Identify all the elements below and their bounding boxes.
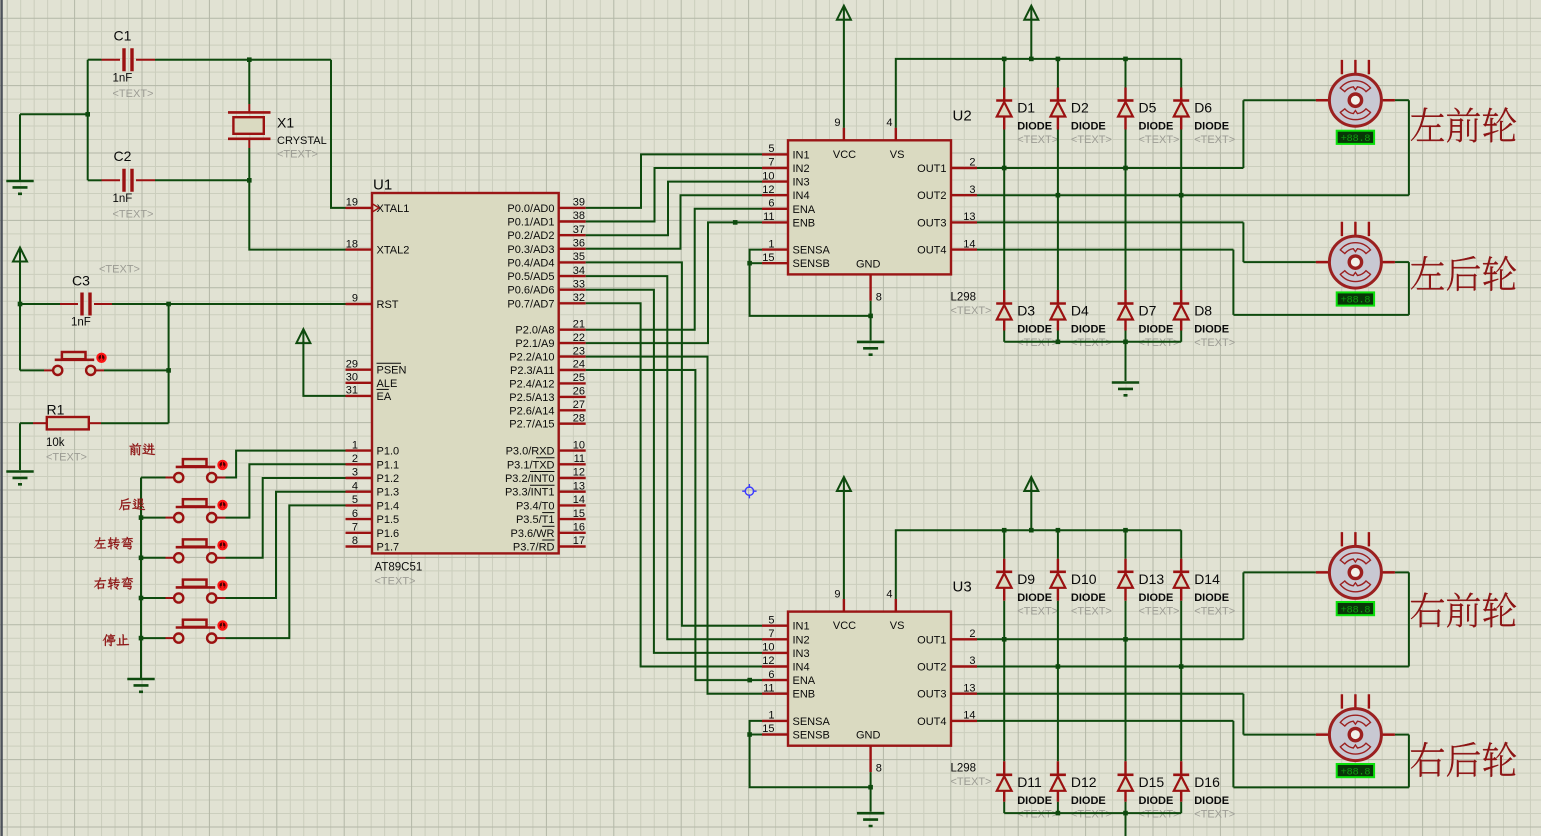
label C2 <box>114 148 132 164</box>
diode D7 <box>1118 304 1134 320</box>
svg-text:4: 4 <box>886 588 892 600</box>
svg-text:8: 8 <box>876 291 882 303</box>
wire button 1 to P1.0 <box>226 451 346 478</box>
wire U3 SENS loop <box>750 721 871 787</box>
svg-text:P3.2/INT0: P3.2/INT0 <box>505 473 555 485</box>
ground below R1 <box>6 472 33 485</box>
svg-text:7: 7 <box>768 628 774 640</box>
text D7 <TEXT> <box>1139 337 1180 349</box>
wire button 2 to P1.1 <box>226 464 346 517</box>
mcu U1 right pins <box>505 197 586 554</box>
svg-text:DIODE: DIODE <box>1017 121 1052 133</box>
wire P2.1 to U2 ENB <box>586 222 762 343</box>
label D6 DIODE <box>1194 121 1229 133</box>
wire button 2 left <box>141 517 166 519</box>
svg-text:AT89C51: AT89C51 <box>375 562 423 574</box>
svg-text:CRYSTAL: CRYSTAL <box>277 135 327 147</box>
text D1 <TEXT> <box>1017 134 1058 146</box>
svg-text:P2.4/A12: P2.4/A12 <box>509 378 554 390</box>
driver U3 right pins <box>917 628 977 728</box>
svg-text:IN3: IN3 <box>793 648 810 660</box>
power arrow VS bank1 <box>1024 6 1038 59</box>
svg-text:P1.1: P1.1 <box>377 459 400 471</box>
wire R1 row <box>20 423 169 470</box>
text U1 <TEXT> <box>375 576 416 588</box>
text D14 <TEXT> <box>1194 605 1235 617</box>
svg-text:GND: GND <box>856 258 881 270</box>
mcu U1 left pins <box>346 197 410 554</box>
diode D14 <box>1173 572 1189 588</box>
wire U2 GND drop <box>870 301 872 341</box>
svg-text:SENSB: SENSB <box>793 730 830 742</box>
power arrow VS bank2 <box>1024 477 1038 530</box>
push button reset <box>44 352 107 375</box>
svg-text:ALE: ALE <box>377 378 398 390</box>
label D10 <box>1071 571 1097 587</box>
svg-text:1: 1 <box>768 710 774 722</box>
svg-text:RST: RST <box>377 299 399 311</box>
svg-text:DIODE: DIODE <box>1071 121 1106 133</box>
diode D11 <box>996 775 1012 791</box>
label turn-left <box>94 537 133 550</box>
text X1 <TEXT> <box>277 149 318 161</box>
svg-text:P2.1/A9: P2.1/A9 <box>515 338 554 350</box>
svg-text:P1.4: P1.4 <box>377 500 400 512</box>
text U2 L298 <TEXT> <box>951 305 992 317</box>
label D9 DIODE <box>1017 592 1052 604</box>
svg-text:IN2: IN2 <box>793 634 810 646</box>
svg-text:P3.6/WR: P3.6/WR <box>510 528 554 540</box>
node bottom bus 2 bank1 <box>1123 340 1128 345</box>
label U3 <box>953 579 972 596</box>
value C1 1nF <box>113 73 133 85</box>
svg-text:D7: D7 <box>1139 303 1157 319</box>
label D11 DIODE <box>1017 795 1052 807</box>
diode D9 <box>996 572 1012 588</box>
node OUT2 D2 <box>1056 193 1061 198</box>
svg-text:39: 39 <box>573 197 585 209</box>
node bus bank2 x1125 <box>1123 528 1128 533</box>
svg-text:14: 14 <box>963 710 975 722</box>
svg-text:<TEXT>: <TEXT> <box>1194 605 1235 617</box>
svg-text:L298: L298 <box>951 291 977 303</box>
svg-text:PSEN: PSEN <box>377 365 407 377</box>
svg-text:OUT2: OUT2 <box>917 662 946 674</box>
svg-text:11: 11 <box>763 211 774 223</box>
wire D15 column <box>1125 639 1127 813</box>
node OUT1 D9 <box>1002 637 1007 642</box>
label D1 DIODE <box>1017 121 1052 133</box>
text D2 <TEXT> <box>1071 134 1112 146</box>
wire D12 column <box>1057 667 1059 814</box>
text D15 <TEXT> <box>1139 808 1180 820</box>
svg-text:13: 13 <box>963 211 975 223</box>
svg-text:<TEXT>: <TEXT> <box>1071 605 1112 617</box>
wire cap left bus <box>20 60 88 181</box>
svg-text:DIODE: DIODE <box>1071 795 1106 807</box>
svg-text:30: 30 <box>346 372 358 384</box>
label backward <box>119 498 145 510</box>
driver U2 body <box>788 140 951 274</box>
node C3 left <box>18 302 23 307</box>
wire U3 GND drop <box>870 772 872 812</box>
power arrow VCC reset <box>13 248 27 371</box>
svg-text:C2: C2 <box>114 148 132 164</box>
svg-text:IN1: IN1 <box>793 621 810 633</box>
wire P0.5 to U3 IN2 <box>586 276 762 639</box>
node bus bank2 x1057 <box>1056 528 1061 533</box>
node junction caps <box>85 112 90 117</box>
wire P0.1 to U2 IN2 <box>586 168 762 222</box>
svg-text:VCC: VCC <box>833 149 856 161</box>
svg-text:15: 15 <box>762 723 774 735</box>
svg-text:DIODE: DIODE <box>1017 795 1052 807</box>
label D7 DIODE <box>1139 324 1174 336</box>
svg-text:GND: GND <box>856 730 881 742</box>
svg-text:P1.2: P1.2 <box>377 473 400 485</box>
label U3 L298 <box>951 763 977 775</box>
label D14 DIODE <box>1194 592 1229 604</box>
label U1 AT89C51 <box>375 562 423 574</box>
svg-text:D5: D5 <box>1139 100 1157 116</box>
driver U3 VS pin <box>886 588 904 632</box>
svg-text:9: 9 <box>834 117 840 129</box>
svg-text:P3.3/INT1: P3.3/INT1 <box>505 487 555 499</box>
label turn-right <box>94 577 133 590</box>
svg-text:SENSA: SENSA <box>793 245 831 257</box>
label D3 <box>1017 303 1035 319</box>
wire D16 column <box>1180 667 1182 814</box>
node bus bank2 x1004 <box>1002 528 1007 533</box>
label D6 <box>1194 100 1212 116</box>
svg-text:X1: X1 <box>277 115 294 131</box>
value R1 10k <box>46 437 65 449</box>
svg-text:DIODE: DIODE <box>1194 324 1229 336</box>
svg-text:9: 9 <box>834 588 840 600</box>
svg-text:DIODE: DIODE <box>1017 592 1052 604</box>
wire D5 column <box>1125 59 1127 168</box>
svg-text:P1.6: P1.6 <box>377 528 400 540</box>
svg-text:P2.5/A13: P2.5/A13 <box>509 392 554 404</box>
svg-text:1nF: 1nF <box>71 317 91 329</box>
svg-text:DIODE: DIODE <box>1139 121 1174 133</box>
diode D12 <box>1050 775 1066 791</box>
svg-text:P0.1/AD1: P0.1/AD1 <box>507 217 554 229</box>
node OUT1 D1 <box>1002 166 1007 171</box>
svg-text:23: 23 <box>573 345 585 357</box>
wire M1 to U2 OUT2 <box>977 100 1409 195</box>
display M3 right-front +88.8 <box>1337 602 1374 616</box>
wire C1 row <box>88 60 346 208</box>
wire button 4 left <box>141 597 166 599</box>
text D13 <TEXT> <box>1139 605 1180 617</box>
label D12 DIODE <box>1071 795 1106 807</box>
svg-text:DIODE: DIODE <box>1194 795 1229 807</box>
push button 1 <box>166 459 228 482</box>
text U3 L298 <TEXT> <box>951 776 992 788</box>
svg-text:6: 6 <box>768 669 774 681</box>
label D10 DIODE <box>1071 592 1106 604</box>
diode D6 <box>1173 101 1189 117</box>
svg-text:D8: D8 <box>1194 303 1212 319</box>
label D16 DIODE <box>1194 795 1229 807</box>
svg-text:XTAL2: XTAL2 <box>377 245 410 257</box>
svg-text:26: 26 <box>573 386 585 398</box>
svg-text:OUT1: OUT1 <box>917 634 946 646</box>
svg-text:8: 8 <box>876 763 882 775</box>
diode D16 <box>1173 775 1189 791</box>
svg-text:<TEXT>: <TEXT> <box>1071 134 1112 146</box>
svg-text:D15: D15 <box>1139 774 1165 790</box>
label U2 <box>953 107 972 124</box>
text D9 <TEXT> <box>1017 605 1058 617</box>
label D14 <box>1194 571 1220 587</box>
wire button 3 to P1.2 <box>226 478 346 558</box>
node bus bank1 x1057 <box>1056 57 1061 62</box>
label stop <box>103 634 129 646</box>
wire U2 SENS loop <box>750 250 871 316</box>
svg-text:IN4: IN4 <box>793 662 810 674</box>
ground buttons <box>127 679 154 692</box>
svg-text:6: 6 <box>768 198 774 210</box>
diode D5 <box>1118 101 1134 117</box>
svg-text:P1.3: P1.3 <box>377 487 400 499</box>
svg-text:3: 3 <box>969 655 975 667</box>
wire X1 bottom <box>248 148 250 180</box>
wire P0.6 to U3 IN3 <box>586 290 762 653</box>
wire D7 column <box>1125 168 1127 342</box>
label left-front-wheel <box>1411 107 1516 142</box>
node RST button <box>166 368 171 373</box>
wire C2 row <box>88 180 346 249</box>
wire button 5 left <box>141 637 166 639</box>
resistor R1 <box>33 417 101 429</box>
svg-text:15: 15 <box>573 508 585 520</box>
wire D4 column <box>1057 195 1059 342</box>
svg-text:+88.8: +88.8 <box>1341 604 1371 616</box>
svg-text:13: 13 <box>573 480 585 492</box>
text D6 <TEXT> <box>1194 134 1235 146</box>
wire diode bottom bus bank1 <box>1004 341 1181 343</box>
power arrow VCC bank1 <box>837 6 851 128</box>
svg-text:D2: D2 <box>1071 100 1089 116</box>
label D9 <box>1017 571 1035 587</box>
text C2 <TEXT> <box>113 209 154 221</box>
motor M3 right-front <box>1316 532 1395 598</box>
wire button 4 to P1.3 <box>226 492 346 598</box>
svg-text:2: 2 <box>969 628 975 640</box>
wire reset button row <box>20 369 169 371</box>
svg-text:IN4: IN4 <box>793 190 810 202</box>
label D15 <box>1139 774 1165 790</box>
diode D13 <box>1118 572 1134 588</box>
label U2 L298 <box>951 291 977 303</box>
text D3 <TEXT> <box>1017 337 1058 349</box>
wire X1 top <box>248 60 250 104</box>
push button 3 <box>166 539 228 562</box>
mcu U1 body <box>372 193 559 553</box>
capacitor C2 <box>102 169 156 192</box>
svg-text:1nF: 1nF <box>113 73 133 85</box>
wire D9 column <box>1003 530 1005 639</box>
svg-text:14: 14 <box>573 494 585 506</box>
driver U3 VCC pin <box>833 588 856 632</box>
svg-text:16: 16 <box>573 522 585 534</box>
value C2 1nF <box>113 193 133 205</box>
svg-text:D13: D13 <box>1139 571 1165 587</box>
wire D10 column <box>1057 530 1059 666</box>
svg-text:DIODE: DIODE <box>1017 324 1052 336</box>
diode D2 <box>1050 101 1066 117</box>
svg-text:IN1: IN1 <box>793 149 810 161</box>
svg-text:5: 5 <box>352 494 358 506</box>
svg-text:U3: U3 <box>953 579 972 596</box>
label C1 <box>114 28 132 44</box>
node OUT2 D10 <box>1056 664 1061 669</box>
crystal X1 <box>228 104 271 148</box>
svg-text:12: 12 <box>573 467 585 479</box>
text D8 <TEXT> <box>1194 337 1235 349</box>
label D1 <box>1017 100 1035 116</box>
value C3 1nF <box>71 317 91 329</box>
text D16 <TEXT> <box>1194 808 1235 820</box>
svg-text:DIODE: DIODE <box>1139 592 1174 604</box>
node button 5 bus <box>139 636 144 641</box>
label D2 <box>1071 100 1089 116</box>
capacitor C3 <box>60 293 112 316</box>
svg-text:OUT3: OUT3 <box>917 217 946 229</box>
svg-text:31: 31 <box>346 385 358 397</box>
motor M2 left-rear <box>1316 222 1395 288</box>
label D13 DIODE <box>1139 592 1174 604</box>
label D15 DIODE <box>1139 795 1174 807</box>
push button 4 <box>166 580 228 603</box>
svg-text:<TEXT>: <TEXT> <box>1017 337 1058 349</box>
node bus bank1 x1004 <box>1002 57 1007 62</box>
wire P2.3 to U3 ENA <box>586 370 762 680</box>
svg-text:OUT2: OUT2 <box>917 190 946 202</box>
svg-text:15: 15 <box>762 252 774 264</box>
ground U2 <box>857 342 884 355</box>
svg-text:D11: D11 <box>1017 774 1042 790</box>
label D5 <box>1139 100 1157 116</box>
node bottom bus 1 bank1 <box>1056 340 1061 345</box>
svg-text:7: 7 <box>768 157 774 169</box>
power arrow VCC bank2 <box>837 477 851 599</box>
svg-text:D3: D3 <box>1017 303 1035 319</box>
text D4 <TEXT> <box>1071 337 1112 349</box>
svg-text:P2.0/A8: P2.0/A8 <box>515 325 554 337</box>
wire bottom bus ground drop bank2 <box>1125 813 1127 836</box>
wire P2.2 to U3 ENB <box>586 357 762 694</box>
diode D8 <box>1173 304 1189 320</box>
svg-text:D9: D9 <box>1017 571 1035 587</box>
svg-text:9: 9 <box>352 293 358 305</box>
svg-text:33: 33 <box>573 278 585 290</box>
svg-text:P0.6/AD6: P0.6/AD6 <box>507 285 554 297</box>
driver U2 GND pin <box>856 258 882 303</box>
label right-rear-wheel <box>1411 742 1516 777</box>
driver U2 VCC pin <box>833 117 856 161</box>
svg-text:<TEXT>: <TEXT> <box>1017 808 1058 820</box>
wire U2 OUT3 to M2 <box>977 222 1316 262</box>
svg-text:<TEXT>: <TEXT> <box>1139 808 1180 820</box>
label D4 DIODE <box>1071 324 1106 336</box>
svg-text:SENSB: SENSB <box>793 258 830 270</box>
motor M4 right-rear <box>1316 694 1395 760</box>
wire P0.2 to U2 IN3 <box>586 182 762 236</box>
node button 3 bus <box>139 556 144 561</box>
wire button 3 left <box>141 557 166 559</box>
svg-text:12: 12 <box>762 184 774 196</box>
svg-text:+88.8: +88.8 <box>1341 295 1371 307</box>
origin marker <box>742 484 756 498</box>
label D4 <box>1071 303 1089 319</box>
svg-text:IN3: IN3 <box>793 177 810 189</box>
svg-text:ENA: ENA <box>793 675 816 687</box>
svg-text:8: 8 <box>352 535 358 547</box>
label right-front-wheel <box>1411 592 1516 627</box>
svg-text:3: 3 <box>352 467 358 479</box>
node OUT1 D5 <box>1123 166 1128 171</box>
svg-text:6: 6 <box>352 508 358 520</box>
wire diode bottom bus bank2 <box>1004 812 1181 814</box>
svg-text:ENB: ENB <box>793 217 816 229</box>
label D13 <box>1139 571 1165 587</box>
text D10 <TEXT> <box>1071 605 1112 617</box>
label X1 CRYSTAL <box>277 135 327 147</box>
svg-text:P0.4/AD4: P0.4/AD4 <box>507 257 554 269</box>
svg-text:35: 35 <box>573 251 585 263</box>
svg-text:24: 24 <box>573 359 585 371</box>
label X1 <box>277 115 294 131</box>
svg-text:34: 34 <box>573 265 585 277</box>
wire M3 to U3 OUT2 <box>977 572 1409 666</box>
push button 2 <box>166 499 228 522</box>
wire U3 OUT3 to M4 <box>977 694 1316 735</box>
diode D15 <box>1118 775 1134 791</box>
diode D1 <box>996 101 1012 117</box>
svg-text:12: 12 <box>762 655 774 667</box>
svg-text:<TEXT>: <TEXT> <box>113 209 154 221</box>
svg-text:13: 13 <box>963 682 975 694</box>
driver U3 body <box>788 612 951 746</box>
svg-text:P1.0: P1.0 <box>377 446 400 458</box>
svg-text:11: 11 <box>574 453 585 465</box>
svg-text:P3.5/T1: P3.5/T1 <box>516 514 555 526</box>
motor M1 left-front <box>1316 60 1395 126</box>
ground diode bank1 <box>1112 383 1139 396</box>
ground U3 <box>857 813 884 826</box>
wire C3 row <box>20 303 346 305</box>
svg-text:<TEXT>: <TEXT> <box>1071 337 1112 349</box>
node junction C1/X1 <box>247 57 252 62</box>
wire D6 column <box>1180 59 1182 195</box>
svg-text:17: 17 <box>573 535 585 547</box>
node RST top <box>166 302 171 307</box>
node bottom bus 1 bank2 <box>1056 811 1061 816</box>
node OUT2 D14 <box>1179 664 1184 669</box>
text D12 <TEXT> <box>1071 808 1112 820</box>
node U3 SENSB <box>747 732 752 737</box>
label R1 <box>47 402 65 418</box>
svg-text:P0.5/AD5: P0.5/AD5 <box>507 271 554 283</box>
label D8 <box>1194 303 1212 319</box>
svg-text:1nF: 1nF <box>113 193 133 205</box>
svg-text:4: 4 <box>352 480 358 492</box>
wire D3 column <box>1003 168 1005 342</box>
svg-text:<TEXT>: <TEXT> <box>1139 337 1180 349</box>
